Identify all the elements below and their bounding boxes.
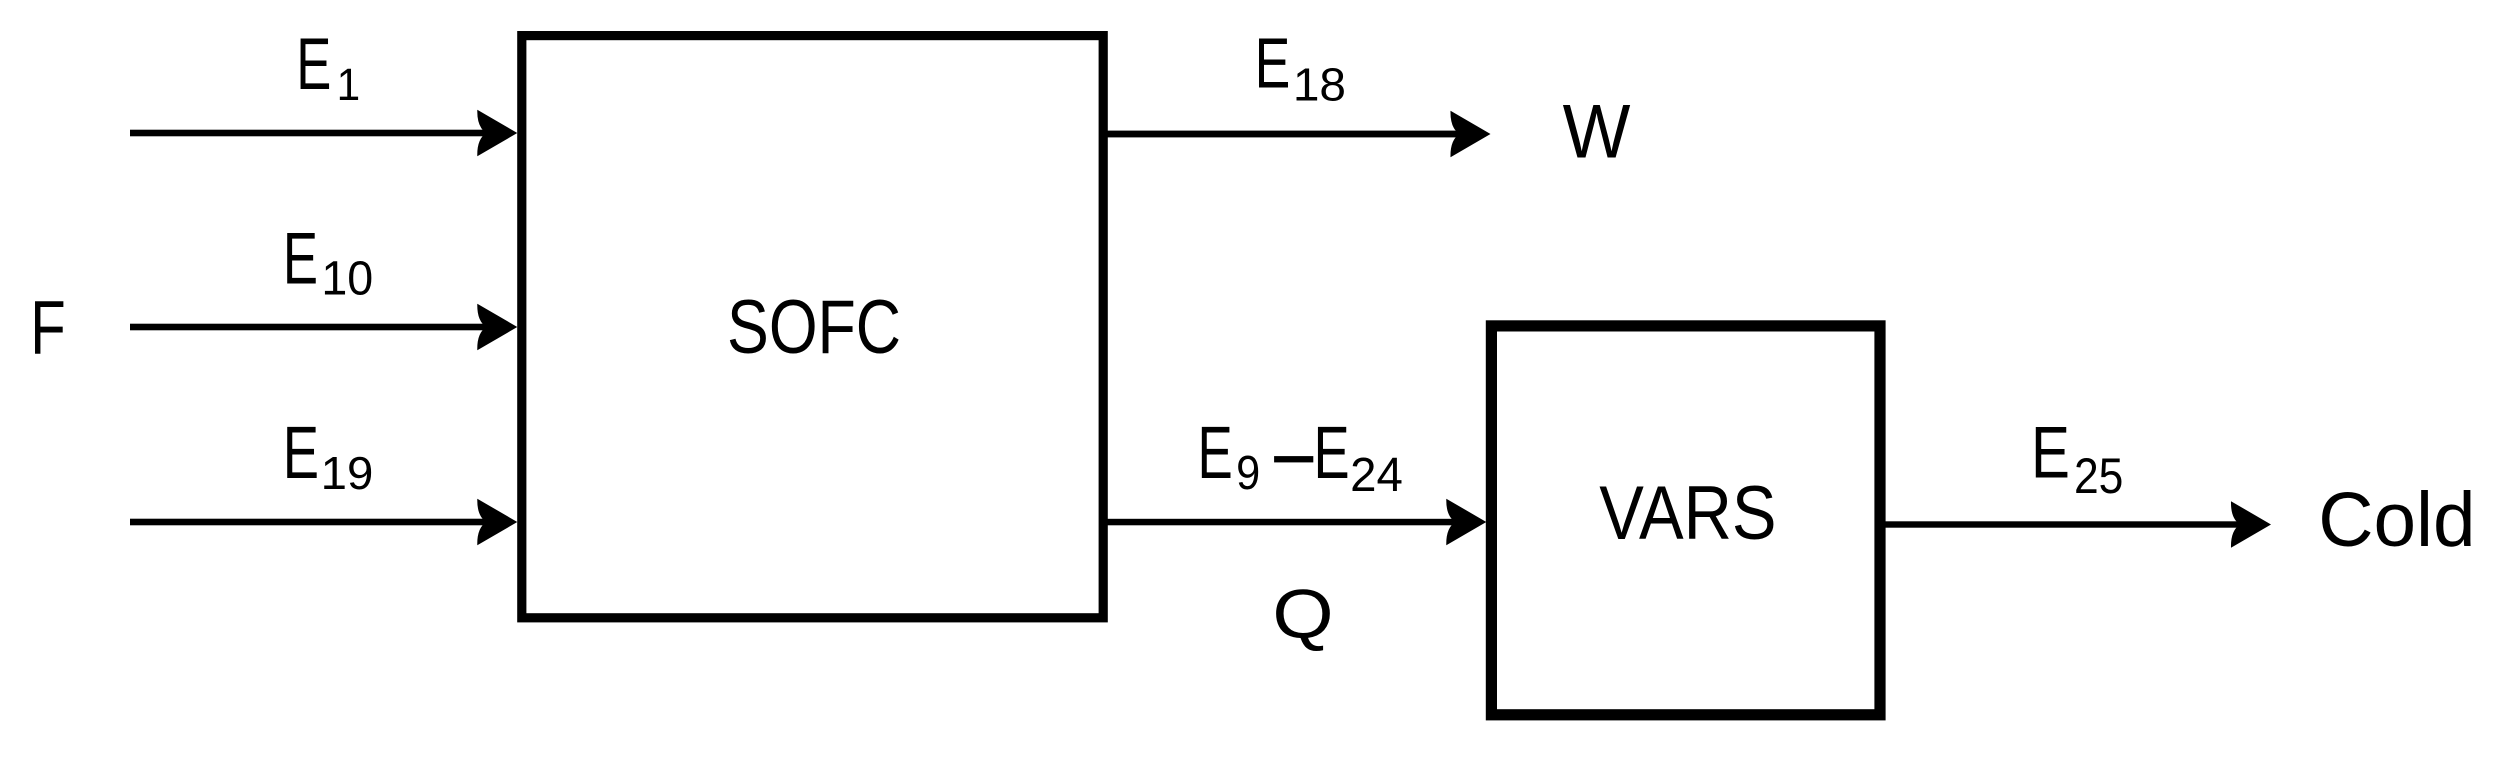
arrowhead E18 [1450,111,1490,158]
node label F [30,286,65,370]
block VARS [1491,326,1880,715]
svg-text:10: 10 [321,252,373,306]
svg-text:9: 9 [1236,445,1260,500]
svg-text:1: 1 [337,60,361,111]
label E9 [1198,411,1233,494]
block SOFC [522,36,1103,618]
svg-text:SOFC: SOFC [727,284,901,369]
wire E10 input [130,324,495,331]
arrowhead E1 [477,110,517,157]
label E1 subscript [337,60,361,111]
wire E18 output [1108,131,1466,138]
label E18 subscript [1293,59,1346,110]
label E10 [283,217,318,300]
node label W [1563,88,1631,173]
wire E19 input [130,519,495,526]
wire E9-E24 heat Q [1108,519,1461,526]
label VARS [1599,471,1776,556]
svg-text:W: W [1563,88,1631,173]
svg-text:Q: Q [1272,575,1333,653]
label E19 [283,410,319,493]
svg-text:E: E [1255,24,1291,103]
svg-text:24: 24 [1350,449,1403,502]
label E18 [1255,24,1291,103]
label E1 [296,22,331,105]
svg-text:E: E [283,410,319,493]
arrowhead E19 [477,499,517,546]
arrowhead E25 [2231,501,2271,548]
node label Cold [2318,477,2475,563]
label E25 [2031,412,2070,494]
label SOFC [727,284,901,369]
svg-text:VARS: VARS [1599,471,1776,556]
label E9 subscript [1236,445,1260,500]
svg-text:E: E [283,217,318,300]
svg-text:E: E [296,22,331,105]
label E10 subscript [321,252,373,306]
label E19 subscript [321,447,374,498]
svg-text:E: E [1314,411,1350,494]
svg-text:25: 25 [2074,448,2123,504]
label E24 subscript [1350,449,1403,502]
node label Q [1272,575,1333,653]
arrowhead E9-E24 [1446,499,1486,546]
svg-text:19: 19 [321,447,374,498]
label E25 subscript [2074,448,2123,504]
svg-text:F: F [30,286,65,370]
svg-text:E: E [1198,411,1233,494]
svg-text:Cold: Cold [2318,477,2475,563]
wire E25 output [1880,521,2245,527]
wire E1 input [130,130,495,137]
svg-text:18: 18 [1293,59,1346,110]
arrowhead E10 [477,304,517,351]
minus dash between E9 and E24 [1274,456,1313,462]
svg-text:E: E [2031,412,2070,494]
label E24 [1314,411,1350,494]
